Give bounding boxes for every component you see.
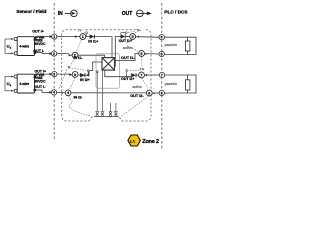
svg-text:6: 6 [161,52,163,56]
boundary circle 8 [159,90,164,95]
svg-text:OUT I-: OUT I- [35,85,47,89]
wire: diode D3 to terminal 5 [126,36,130,38]
boundary pass-through circle 3 [52,72,57,77]
transmitter 2 box 4-wire [17,74,34,93]
TVS suppressor 2 [101,112,104,117]
transmitter 1 box 4-wire [17,37,34,56]
right zone divider (dashed) [161,3,163,150]
wire: X-box bottom to diode D4 to terminal 7 [105,70,131,77]
svg-text:6: 6 [141,52,143,56]
terminal 3 [72,72,78,78]
wire terminal5 to boundary 5 [136,36,159,39]
TVS protection bus [94,115,119,117]
test tap ch2 in [87,72,89,75]
svg-text:1: 1 [53,35,55,39]
svg-text:IN I1-: IN I1- [73,56,83,60]
wire: X-box to diode D3 to terminal 5 [115,37,121,67]
TVS suppressor 3 [109,112,112,117]
diode D2 [80,73,85,77]
svg-text:4: 4 [53,91,55,95]
svg-text:5: 5 [161,36,163,40]
junction dot ch2 [87,74,89,76]
load resistor 2 [185,80,190,90]
svg-text:TI-: TI- [78,29,82,33]
X-box isolation barrier [102,58,115,71]
terminal 8 [146,90,152,96]
boundary pass-through circle 4 [52,90,57,95]
diode D3 [121,34,126,38]
svg-text:PLC / DCS: PLC / DCS [164,10,188,16]
diode D4 [131,73,136,77]
wire: terminal2 to X-box [78,55,105,57]
transmitter 2 output pads [34,76,37,79]
boundary pass-through circle 1 [52,34,57,39]
wire boundary4 to terminal 4 [57,92,65,94]
TVS stubs [96,70,98,112]
left zone divider (dashed) [53,3,55,140]
transmitter 1 input terminals [14,37,17,40]
svg-text:TI+: TI+ [136,28,141,32]
svg-text:OUT: OUT [122,11,133,17]
svg-text:active: active [132,85,142,89]
svg-text:2: 2 [53,52,55,56]
test tap ch2 out [126,71,128,76]
diode D1 [90,34,95,38]
svg-text:30VDC: 30VDC [34,42,46,46]
svg-text:7: 7 [161,73,163,77]
boundary circle 6 [159,51,164,56]
terminal 6 [139,51,145,57]
svg-text:4-wire: 4-wire [19,44,29,48]
dashed test diagonals right [121,31,149,116]
transmitter 1: supply Us source [5,38,14,54]
svg-text:7: 7 [140,73,142,77]
boundary circle 7 [159,72,164,77]
wire: terminal4 to terminal8 (long return) [71,92,146,94]
svg-text:IN I1+: IN I1+ [88,39,98,43]
terminal 7 [139,72,145,78]
wire: terminal3/diode to X-box left [78,62,102,75]
svg-text:passive: passive [165,43,178,47]
svg-text:TI+: TI+ [140,68,145,72]
svg-text:30VDC: 30VDC [34,79,46,83]
svg-text:OUT I1+: OUT I1+ [119,39,132,43]
svg-text:4-wire: 4-wire [19,82,29,86]
wire boundary3 to terminal 3 [57,73,72,76]
svg-text:active: active [123,46,133,50]
terminal 5 [130,34,136,40]
svg-text:OUT I+: OUT I+ [32,30,44,34]
boundary pass-through circle 2 [52,51,57,56]
wire: diode D4 to terminal 7 [137,74,139,76]
isolation module enclosure [96,54,120,88]
boundary circle 5 [159,35,164,40]
wire boundary1 to terminal 1 [57,36,80,38]
Ex hexagon [128,135,140,146]
load resistor 1 [185,41,190,51]
terminal 2 [72,52,78,58]
transmitter 2 wires to boundary [36,74,50,92]
svg-text:passive: passive [165,82,178,86]
terminal 1 [80,34,86,40]
TVS suppressor 4 [114,112,117,117]
wire terminal8 to boundary 8 [152,92,159,94]
svg-text:8: 8 [161,91,163,95]
svg-text:IN I2-: IN I2- [74,96,84,100]
TVS suppressor 1 [96,112,118,117]
terminal 4 [65,90,71,96]
OUT symbol [122,10,152,17]
svg-text:8: 8 [148,91,150,95]
load loop 1 [164,37,196,54]
transmitter 2 input terminals [14,75,17,78]
device outline (dashed rounded rect) [62,30,151,121]
svg-text:Zone 2: Zone 2 [142,139,159,145]
svg-text:IN: IN [58,11,63,17]
svg-text:IN I2+: IN I2+ [80,78,90,82]
svg-text:TI-: TI- [67,66,71,70]
dashed test diagonals left [59,32,91,116]
test tap ch1 out [121,33,125,36]
transmitter 1 wires to boundary [36,37,50,54]
transmitter 1 output pads [34,38,37,41]
svg-text:Sensor / Field: Sensor / Field [16,9,46,15]
wire boundary2 to terminal 2 [57,54,72,56]
svg-text:3: 3 [74,73,76,77]
wire terminal6 to boundary 6 [145,53,160,55]
wire terminal7 to boundary 7 [144,74,159,76]
wire: terminal1 to diode to X-box [86,37,112,58]
svg-text:OUT I2-: OUT I2- [130,94,144,98]
svg-text:OUT I1-: OUT I1- [121,56,135,60]
TI labels [67,28,144,71]
svg-text:εx: εx [130,138,136,145]
svg-text:3: 3 [53,72,55,76]
svg-text:OUT I2+: OUT I2+ [121,77,134,81]
svg-text:4: 4 [67,91,69,95]
load loop 2 [165,75,197,93]
transmitter 2: supply Us source [5,76,14,92]
test tap T1 [86,34,88,37]
wire: X-box right to terminal 6 [115,54,139,61]
IN symbol [58,10,77,17]
